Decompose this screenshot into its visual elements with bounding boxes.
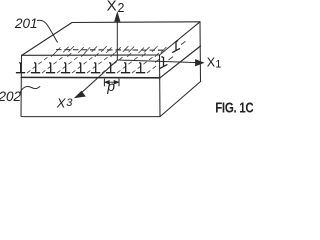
period label p [106,78,115,94]
svg-text:FIG. 1C: FIG. 1C [215,99,253,116]
layer interface oblique line on right face [160,46,201,78]
domain symbol on right face (far) [172,41,180,53]
period double-headed arrow [105,81,118,84]
domain-wall hatch on front band (dashed diagonals) [27,57,158,74]
reference numeral 201 [14,16,38,31]
hatch dashes on right face [155,41,185,62]
svg-text:201: 201 [14,16,38,31]
reference numeral 202 [0,89,22,104]
layer interface line on front face (201/202 boundary) [21,76,160,78]
svg-text:p: p [106,78,115,94]
axis X3 (oblique, down-left) [75,60,117,98]
axis X2 label [107,0,125,15]
axis X1 (horizontal right) [118,60,204,66]
hidden grating hatch on top face (dashed diagonals) [51,46,166,57]
slab back top edge [72,21,200,24]
svg-text:1: 1 [215,59,221,71]
slab top-right oblique edge [160,22,201,55]
slab top-left oblique edge [22,23,73,56]
svg-text:2: 2 [118,1,125,15]
slab bottom-right oblique edge [160,82,201,117]
hidden grating back edge (dashed) on top face [56,49,164,52]
svg-text:X: X [56,96,67,111]
slab front top edge [22,54,160,56]
slab front-right vertical edge [159,55,162,117]
slab front-left vertical edge [20,56,23,117]
period marker tick (right) [118,79,120,87]
svg-text:3: 3 [66,97,73,109]
axis X2 (vertical) [115,13,120,60]
row of domain orientation symbols on front face [16,63,145,73]
axis X3 label [56,96,74,111]
domain symbol on right face (near) [160,57,168,69]
slab back-right vertical edge [199,22,202,82]
svg-text:X: X [107,0,117,15]
svg-text:202: 202 [0,89,22,104]
leader line from 201 to top face [37,20,58,42]
axis X1 label [207,56,222,71]
period marker tick (left) [103,79,105,87]
leader line from 202 to lower layer [20,86,40,93]
figure caption FIG. 1C [215,99,254,116]
slab front bottom edge [21,115,160,118]
